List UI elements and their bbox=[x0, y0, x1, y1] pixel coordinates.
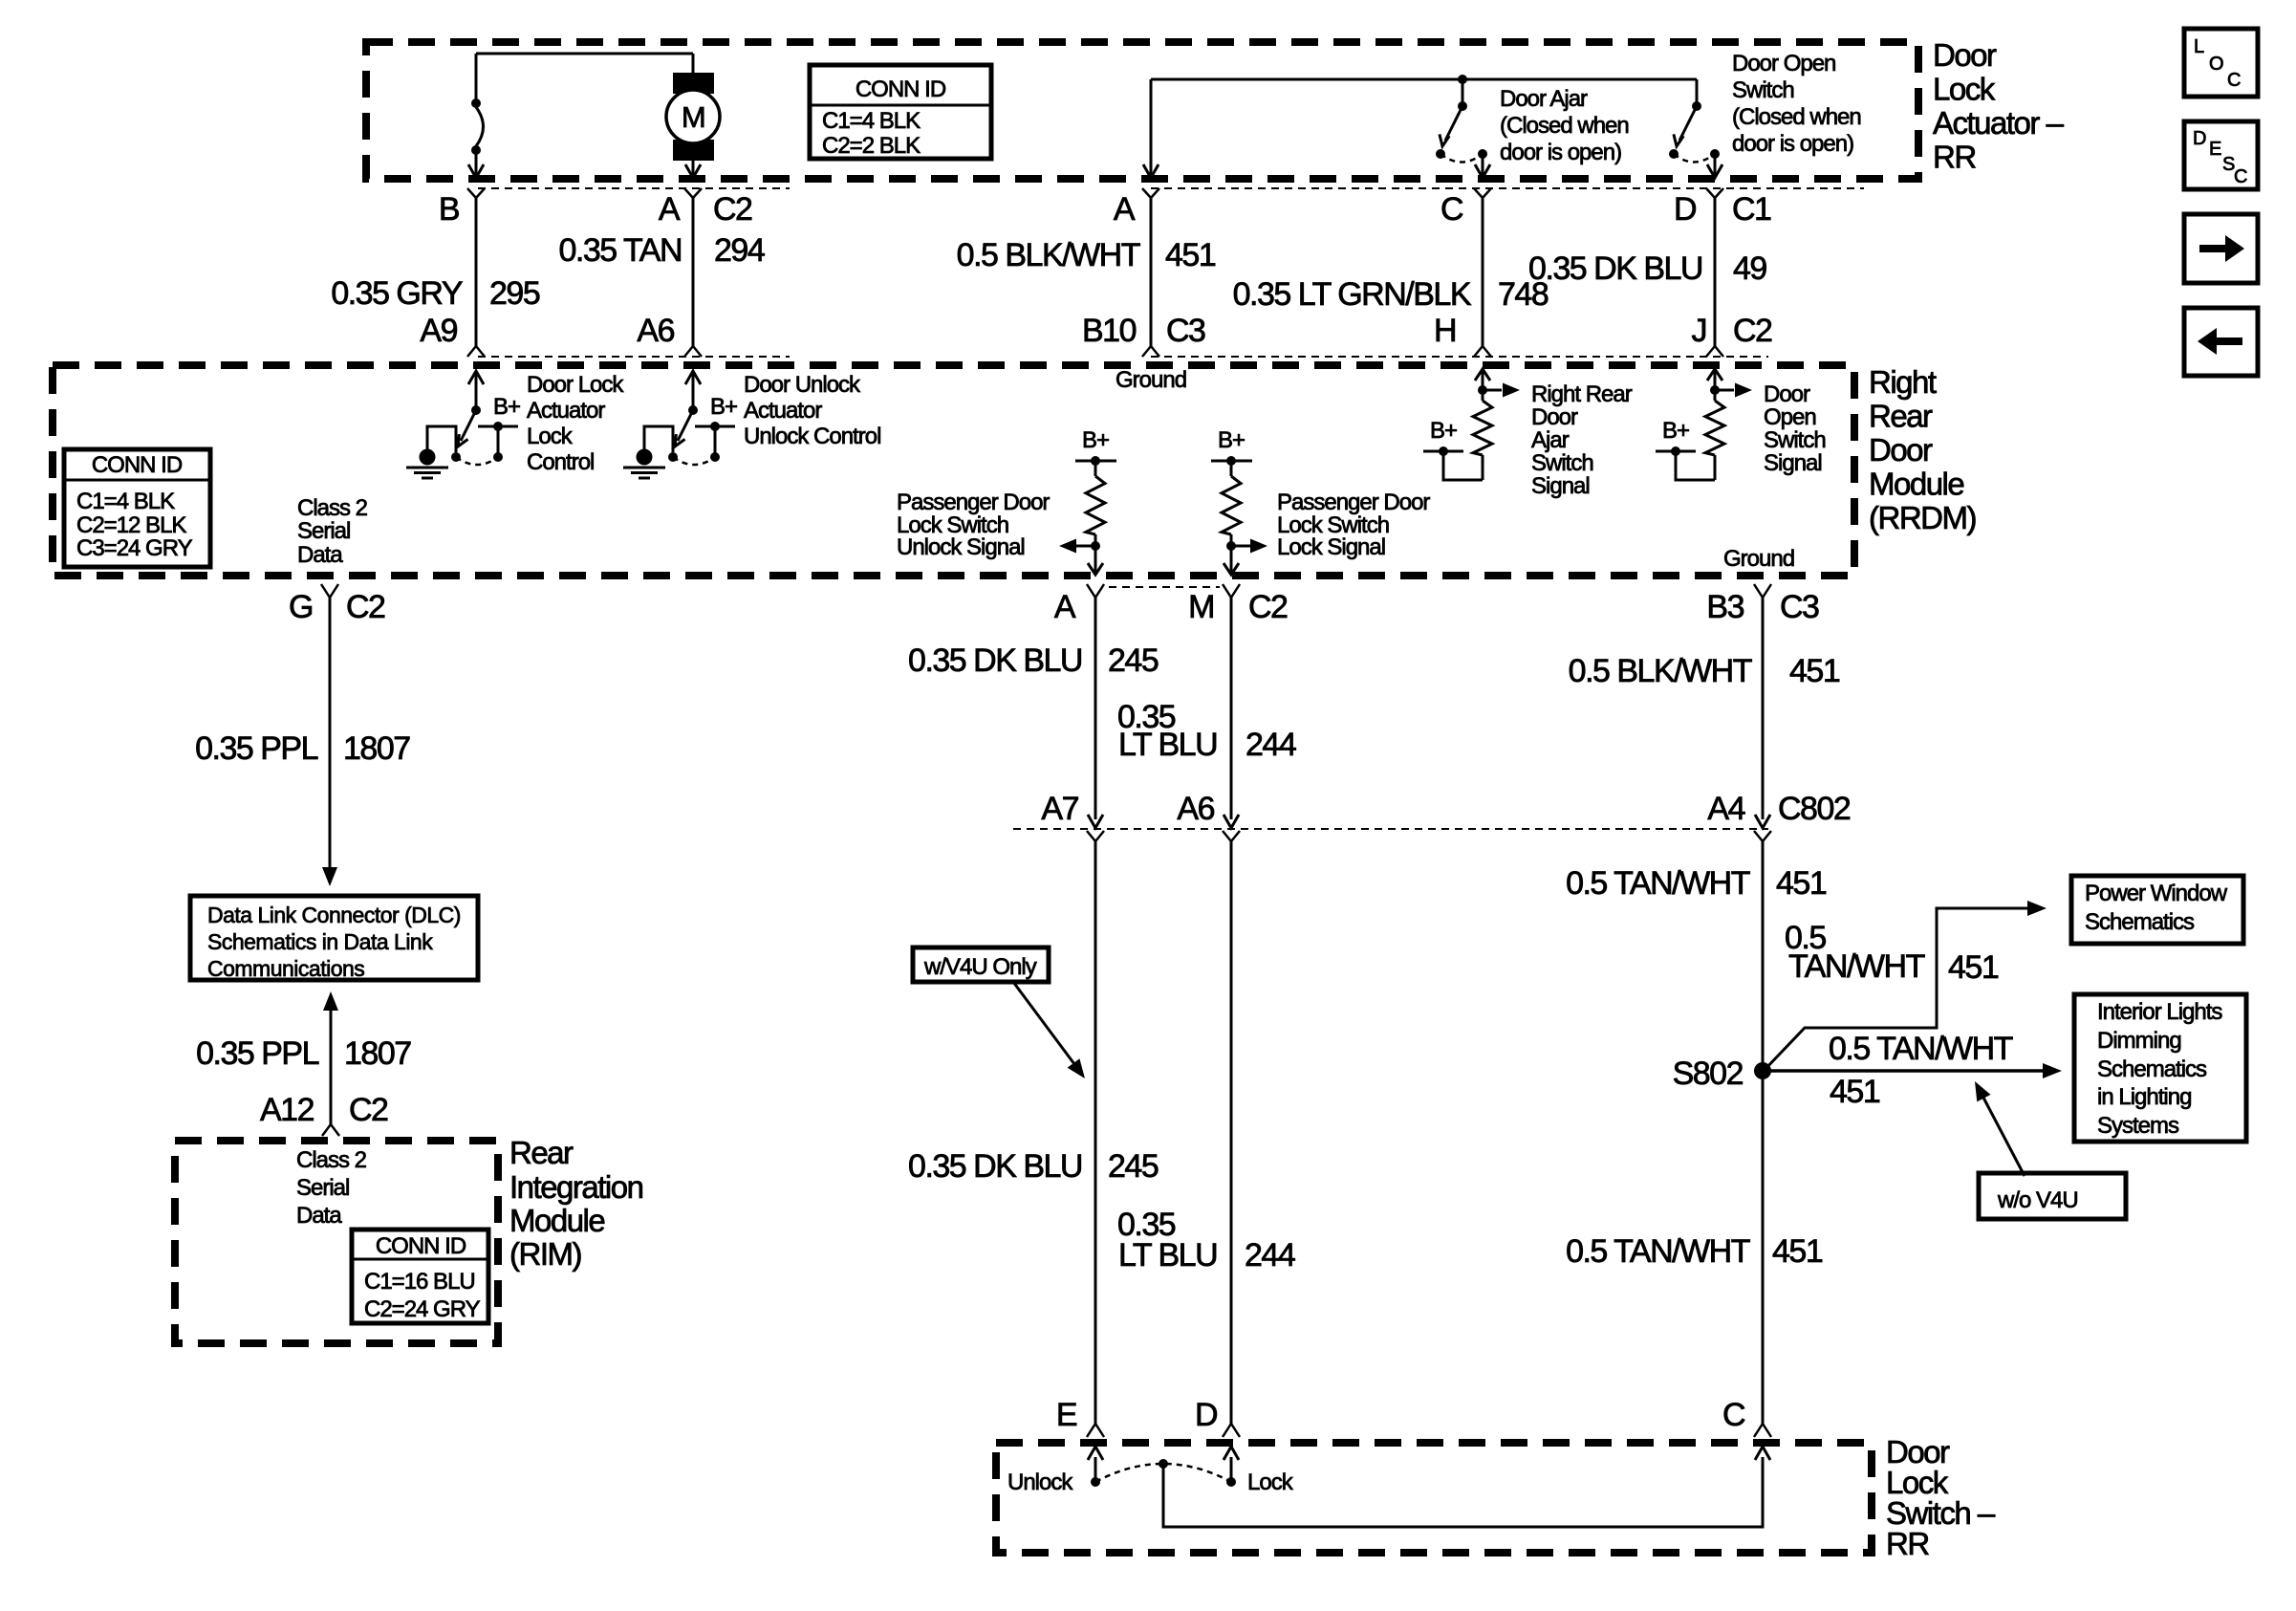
svg-text:D: D bbox=[1674, 191, 1696, 228]
svg-text:C2: C2 bbox=[1248, 589, 1288, 625]
svg-text:0.5 TAN/WHT: 0.5 TAN/WHT bbox=[1566, 865, 1750, 902]
svg-text:Ground: Ground bbox=[1116, 367, 1186, 393]
svg-text:Control: Control bbox=[527, 449, 594, 475]
svg-text:A7: A7 bbox=[1041, 791, 1078, 827]
svg-text:451: 451 bbox=[1789, 653, 1840, 689]
svg-text:C2=2 BLK: C2=2 BLK bbox=[822, 133, 921, 159]
svg-text:451: 451 bbox=[1948, 949, 1999, 986]
svg-text:B3: B3 bbox=[1706, 589, 1744, 625]
svg-text:O: O bbox=[2209, 54, 2223, 75]
svg-text:0.35 GRY: 0.35 GRY bbox=[331, 275, 463, 312]
svg-text:0.35 LT GRN/BLK: 0.35 LT GRN/BLK bbox=[1233, 276, 1472, 313]
svg-text:w/o V4U: w/o V4U bbox=[1997, 1187, 2078, 1213]
svg-text:(RRDM): (RRDM) bbox=[1869, 500, 1976, 535]
svg-text:A6: A6 bbox=[1177, 791, 1214, 827]
svg-text:C2: C2 bbox=[346, 589, 385, 625]
svg-text:Module: Module bbox=[1869, 467, 1963, 502]
svg-text:Right: Right bbox=[1869, 364, 1937, 400]
svg-text:w/V4U Only: w/V4U Only bbox=[923, 954, 1037, 980]
svg-text:C1: C1 bbox=[1732, 191, 1771, 228]
svg-text:Door: Door bbox=[1869, 432, 1933, 468]
svg-text:Right Rear: Right Rear bbox=[1531, 381, 1633, 407]
svg-text:1807: 1807 bbox=[344, 1035, 411, 1072]
svg-text:C2=24 GRY: C2=24 GRY bbox=[364, 1296, 481, 1322]
svg-text:748: 748 bbox=[1498, 276, 1549, 313]
svg-text:A12: A12 bbox=[260, 1092, 314, 1128]
svg-text:Unlock Control: Unlock Control bbox=[744, 424, 880, 449]
svg-text:C2: C2 bbox=[713, 191, 752, 228]
svg-text:0.35 DK BLU: 0.35 DK BLU bbox=[908, 642, 1082, 679]
svg-text:B+: B+ bbox=[493, 394, 520, 420]
svg-text:0.35 TAN: 0.35 TAN bbox=[559, 232, 682, 269]
svg-text:Lock: Lock bbox=[1933, 72, 1996, 107]
svg-text:Class 2: Class 2 bbox=[296, 1147, 367, 1173]
svg-text:J: J bbox=[1692, 313, 1707, 349]
svg-text:Interior Lights: Interior Lights bbox=[2097, 999, 2222, 1025]
svg-text:Lock: Lock bbox=[527, 424, 574, 449]
svg-text:C1=16 BLU: C1=16 BLU bbox=[364, 1269, 475, 1295]
svg-text:0.35 PPL: 0.35 PPL bbox=[196, 1035, 318, 1072]
svg-text:Door Open: Door Open bbox=[1732, 51, 1835, 76]
svg-text:Lock Signal: Lock Signal bbox=[1277, 534, 1385, 560]
svg-text:B+: B+ bbox=[1430, 418, 1457, 444]
svg-text:Ground: Ground bbox=[1723, 546, 1794, 572]
svg-text:Communications: Communications bbox=[207, 956, 364, 981]
svg-text:0.5 TAN/WHT: 0.5 TAN/WHT bbox=[1566, 1233, 1750, 1270]
svg-text:Schematics in Data Link: Schematics in Data Link bbox=[207, 929, 433, 954]
svg-text:B10: B10 bbox=[1082, 313, 1137, 349]
svg-text:Switch: Switch bbox=[1764, 427, 1826, 453]
svg-text:Door Lock: Door Lock bbox=[527, 372, 624, 398]
svg-text:Switch: Switch bbox=[1732, 77, 1794, 103]
svg-text:B+: B+ bbox=[1082, 427, 1109, 453]
svg-text:A: A bbox=[1054, 589, 1076, 625]
svg-text:0.35 PPL: 0.35 PPL bbox=[195, 730, 317, 767]
svg-text:0.5 TAN/WHT: 0.5 TAN/WHT bbox=[1829, 1031, 2013, 1067]
svg-text:Rear: Rear bbox=[509, 1135, 574, 1170]
svg-text:B+: B+ bbox=[1662, 418, 1689, 444]
svg-text:C: C bbox=[2227, 70, 2241, 91]
svg-text:Serial: Serial bbox=[297, 518, 350, 544]
svg-text:LT BLU: LT BLU bbox=[1118, 1237, 1217, 1274]
svg-text:295: 295 bbox=[489, 275, 540, 312]
svg-text:(RIM): (RIM) bbox=[509, 1236, 581, 1272]
svg-text:M: M bbox=[682, 100, 704, 134]
svg-text:S802: S802 bbox=[1673, 1056, 1744, 1092]
svg-text:CONN ID: CONN ID bbox=[92, 452, 183, 478]
svg-text:Dimming: Dimming bbox=[2097, 1028, 2181, 1054]
svg-text:C802: C802 bbox=[1778, 791, 1851, 827]
svg-text:TAN/WHT: TAN/WHT bbox=[1788, 948, 1925, 985]
svg-text:Door Unlock: Door Unlock bbox=[744, 372, 861, 398]
svg-text:RR: RR bbox=[1886, 1526, 1929, 1561]
svg-text:451: 451 bbox=[1830, 1074, 1880, 1110]
svg-text:E: E bbox=[1056, 1397, 1077, 1433]
svg-text:(Closed when: (Closed when bbox=[1500, 113, 1629, 139]
svg-text:D: D bbox=[2193, 128, 2206, 149]
svg-text:0.5 BLK/WHT: 0.5 BLK/WHT bbox=[1569, 653, 1752, 689]
svg-text:A: A bbox=[1114, 191, 1136, 228]
svg-text:49: 49 bbox=[1733, 250, 1766, 287]
svg-text:Schematics: Schematics bbox=[2097, 1056, 2207, 1082]
svg-text:1807: 1807 bbox=[343, 730, 410, 767]
svg-text:LT BLU: LT BLU bbox=[1118, 727, 1217, 763]
svg-text:Rear: Rear bbox=[1869, 399, 1933, 434]
svg-text:Unlock: Unlock bbox=[1007, 1469, 1073, 1495]
svg-text:244: 244 bbox=[1245, 727, 1296, 763]
svg-text:Door: Door bbox=[1531, 404, 1578, 430]
svg-text:A9: A9 bbox=[420, 313, 457, 349]
svg-text:C: C bbox=[1440, 191, 1463, 228]
svg-text:Systems: Systems bbox=[2097, 1113, 2179, 1139]
svg-text:C3: C3 bbox=[1166, 313, 1205, 349]
svg-text:Switch: Switch bbox=[1531, 450, 1593, 476]
svg-text:Actuator –: Actuator – bbox=[1933, 105, 2065, 141]
svg-text:Data: Data bbox=[297, 542, 343, 568]
svg-text:Class 2: Class 2 bbox=[297, 495, 368, 521]
svg-text:Unlock Signal: Unlock Signal bbox=[897, 534, 1025, 560]
svg-text:Signal: Signal bbox=[1531, 473, 1590, 499]
svg-text:B: B bbox=[439, 191, 459, 228]
svg-text:CONN ID: CONN ID bbox=[856, 76, 946, 102]
svg-text:451: 451 bbox=[1165, 237, 1216, 273]
svg-text:C2: C2 bbox=[1733, 313, 1772, 349]
svg-text:A: A bbox=[659, 191, 681, 228]
svg-text:Open: Open bbox=[1764, 404, 1816, 430]
svg-text:A6: A6 bbox=[637, 313, 674, 349]
svg-text:451: 451 bbox=[1772, 1233, 1823, 1270]
svg-text:245: 245 bbox=[1108, 1148, 1159, 1185]
svg-text:C3: C3 bbox=[1780, 589, 1819, 625]
svg-text:Actuator: Actuator bbox=[527, 398, 605, 424]
svg-text:Integration: Integration bbox=[509, 1169, 643, 1205]
svg-text:Module: Module bbox=[509, 1203, 604, 1238]
svg-text:Serial: Serial bbox=[296, 1175, 349, 1201]
svg-text:Actuator: Actuator bbox=[744, 398, 822, 424]
svg-text:C2=12 BLK: C2=12 BLK bbox=[76, 512, 186, 538]
svg-text:E: E bbox=[2209, 139, 2221, 160]
svg-text:in Lighting: in Lighting bbox=[2097, 1084, 2191, 1110]
svg-text:(Closed when: (Closed when bbox=[1732, 104, 1861, 130]
svg-text:H: H bbox=[1434, 313, 1456, 349]
svg-text:C1=4 BLK: C1=4 BLK bbox=[822, 108, 921, 134]
svg-text:CONN ID: CONN ID bbox=[376, 1233, 466, 1259]
svg-text:L: L bbox=[2194, 36, 2204, 57]
svg-text:B+: B+ bbox=[710, 394, 737, 420]
svg-text:C3=24 GRY: C3=24 GRY bbox=[76, 535, 193, 561]
svg-text:451: 451 bbox=[1776, 865, 1827, 902]
svg-text:D: D bbox=[1195, 1397, 1217, 1433]
svg-text:Door Ajar: Door Ajar bbox=[1500, 86, 1588, 112]
svg-text:Passenger Door: Passenger Door bbox=[897, 490, 1050, 515]
svg-text:0.35 DK BLU: 0.35 DK BLU bbox=[908, 1148, 1082, 1185]
svg-text:0.5 BLK/WHT: 0.5 BLK/WHT bbox=[957, 237, 1140, 273]
svg-text:Data Link Connector (DLC): Data Link Connector (DLC) bbox=[207, 903, 461, 927]
svg-text:Schematics: Schematics bbox=[2085, 909, 2195, 935]
svg-text:Power Window: Power Window bbox=[2085, 881, 2228, 906]
svg-text:RR: RR bbox=[1933, 140, 1976, 175]
svg-text:M: M bbox=[1188, 589, 1214, 625]
svg-text:Lock: Lock bbox=[1247, 1469, 1294, 1495]
svg-text:A4: A4 bbox=[1707, 791, 1744, 827]
svg-text:244: 244 bbox=[1245, 1237, 1295, 1274]
svg-text:door is open): door is open) bbox=[1732, 131, 1853, 157]
svg-text:245: 245 bbox=[1108, 642, 1159, 679]
svg-text:Door: Door bbox=[1764, 381, 1810, 407]
svg-text:C: C bbox=[1722, 1397, 1745, 1433]
svg-text:door is open): door is open) bbox=[1500, 140, 1621, 165]
svg-text:Door: Door bbox=[1933, 37, 1997, 73]
svg-text:G: G bbox=[289, 589, 313, 625]
svg-text:C2: C2 bbox=[349, 1092, 388, 1128]
svg-text:Ajar: Ajar bbox=[1531, 427, 1570, 453]
svg-text:294: 294 bbox=[714, 232, 765, 269]
svg-text:0.35 DK BLU: 0.35 DK BLU bbox=[1528, 250, 1702, 287]
svg-text:Signal: Signal bbox=[1764, 450, 1822, 476]
svg-text:Data: Data bbox=[296, 1203, 342, 1229]
svg-text:C1=4 BLK: C1=4 BLK bbox=[76, 489, 175, 514]
svg-text:B+: B+ bbox=[1218, 427, 1245, 453]
svg-text:Passenger Door: Passenger Door bbox=[1277, 490, 1430, 515]
svg-text:C: C bbox=[2234, 166, 2247, 187]
